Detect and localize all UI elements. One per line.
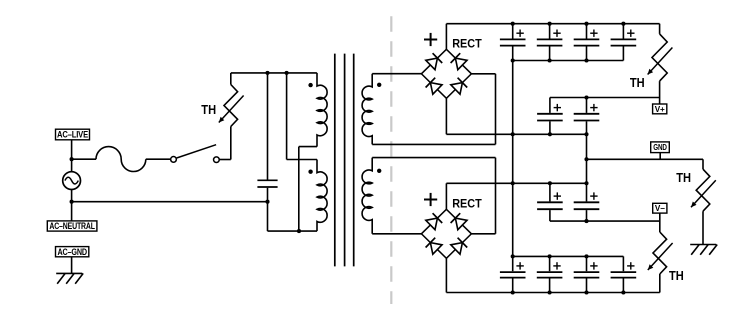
node live rail X-cap tap xyxy=(265,71,269,75)
capacitor C8 output V- xyxy=(537,183,563,221)
svg-text:AC–GND: AC–GND xyxy=(57,247,87,257)
center gnd bus wire xyxy=(586,134,588,183)
wire fuse to switch xyxy=(146,158,171,160)
svg-text:AC–NEUTRAL: AC–NEUTRAL xyxy=(49,221,95,231)
svg-text:TH: TH xyxy=(669,268,684,283)
transformer secondary S2 winding xyxy=(362,158,372,234)
junction dots gnd mid rail xyxy=(511,132,589,136)
V+ raw rail xyxy=(446,23,659,25)
label box AC-NEUTRAL xyxy=(47,221,97,231)
capacitor C12 reservoir V- xyxy=(574,256,600,292)
wire RECT2 plus output up xyxy=(445,183,447,209)
RECT2 diode D2 upper-right xyxy=(451,213,467,230)
transformer T1 core xyxy=(335,54,354,267)
node neutral junction at source xyxy=(70,200,74,204)
bottom bank upper rail xyxy=(513,255,624,257)
primary P1 to P2 interconnect wire xyxy=(299,147,317,232)
thermistor TH2 V+ current limit xyxy=(648,24,673,98)
transformer primary P2 phase dot xyxy=(308,170,312,174)
transformer secondary S1 phase dot xyxy=(377,83,381,87)
svg-text:RECT: RECT xyxy=(452,37,482,51)
secondary S1 bottom return wire xyxy=(372,74,495,145)
wire RECT2 minus output down xyxy=(445,258,447,292)
RECT2 diode D1 upper-left xyxy=(426,213,442,230)
capacitor C10 reservoir V- xyxy=(500,256,526,292)
bridge rectifier RECT1 body xyxy=(421,49,471,98)
svg-text:RECT: RECT xyxy=(452,197,482,211)
svg-text:V−: V− xyxy=(655,204,665,213)
junction dot GND rail xyxy=(584,157,588,161)
wire AC-GND to earth xyxy=(71,257,73,274)
capacitor C2 reservoir V+ xyxy=(500,24,526,61)
top bank lower rail xyxy=(513,60,624,62)
wire to AC-NEUTRAL label xyxy=(71,202,73,221)
secondary S1 top lead wire xyxy=(372,73,421,75)
label box V- xyxy=(653,203,667,213)
node live input junction xyxy=(70,157,74,161)
primary P2 bottom edge wire xyxy=(268,230,318,232)
svg-text:TH: TH xyxy=(201,102,216,117)
V- smoothed rail xyxy=(550,220,660,222)
transformer primary P1 phase dot xyxy=(308,83,312,87)
junction dots V+ raw rail xyxy=(511,22,626,26)
thermistor TH1 inrush mains xyxy=(219,73,244,160)
capacitor C11 reservoir V- xyxy=(537,256,563,292)
wire RECT1 minus output down xyxy=(445,98,447,134)
RECT2 plus polarity mark xyxy=(424,193,437,206)
wire to fuse xyxy=(72,158,96,160)
capacitor C7 output V+ xyxy=(574,98,600,135)
junction dot V- smoothed rail xyxy=(584,219,588,223)
RECT1 diode D3 lower-left xyxy=(426,78,442,95)
RECT2 plus rail xyxy=(446,182,586,184)
junction dots RECT2 plus rail xyxy=(511,181,589,185)
thermistor TH3 gnd xyxy=(691,159,716,244)
node primary interconnect junction xyxy=(297,229,301,233)
wire live rail to primary2 top xyxy=(287,73,317,160)
V+ smoothed rail xyxy=(550,97,660,99)
capacitor C5 reservoir V+ xyxy=(611,24,637,61)
node X-cap neutral primary return junction xyxy=(265,200,269,204)
bridge rectifier RECT2 body xyxy=(421,209,471,258)
transformer primary P1 winding xyxy=(317,73,327,147)
RECT2 diode D3 lower-left xyxy=(426,238,442,255)
transformer primary P2 winding xyxy=(317,160,327,232)
RECT1 diode D4 lower-right xyxy=(451,78,467,95)
capacitor C3 reservoir V+ xyxy=(537,24,563,61)
svg-text:TH: TH xyxy=(676,170,691,185)
capacitor C4 reservoir V+ xyxy=(574,24,600,61)
label box V+ xyxy=(653,104,667,114)
label box GND xyxy=(651,142,670,153)
svg-text:V+: V+ xyxy=(655,105,665,114)
transformer secondary S1 winding xyxy=(362,74,372,145)
transformer secondary S2 phase dot xyxy=(377,169,381,173)
svg-text:TH: TH xyxy=(630,75,645,90)
isolation boundary dashed line xyxy=(390,16,392,304)
AC source V1 xyxy=(63,159,81,202)
fuse F1 xyxy=(96,147,146,172)
wire switch to thermistor TH1 xyxy=(219,159,231,161)
svg-text:GND: GND xyxy=(653,143,667,152)
RECT2 diode D4 lower-right xyxy=(451,238,467,255)
switch S1 xyxy=(171,145,220,163)
junction dots V- raw rail xyxy=(511,290,626,294)
V- raw rail xyxy=(446,292,659,294)
neutral rail wire xyxy=(72,201,268,203)
wire AC-LIVE to live node xyxy=(71,140,73,159)
bus wire top bank to gnd rail xyxy=(512,61,514,257)
label box AC-LIVE xyxy=(56,129,90,140)
svg-text:AC–LIVE: AC–LIVE xyxy=(57,130,88,140)
junction dots bottom bank upper rail xyxy=(511,254,589,258)
GND output rail xyxy=(587,158,704,160)
secondary S2 top return wire xyxy=(372,158,495,234)
wire GND label to gnd rail xyxy=(659,153,661,160)
thermistor TH4 V- current limit xyxy=(648,232,673,293)
node live rail primary2 tap xyxy=(285,71,289,75)
RECT1 diode D2 upper-right xyxy=(451,53,467,69)
live rail after thermistor xyxy=(231,72,317,74)
chassis ground mains earth xyxy=(56,273,83,283)
junction dots top bank lower rail xyxy=(511,58,589,62)
X capacitor C1 xyxy=(257,180,277,201)
RECT1 diode D1 upper-left xyxy=(426,53,442,69)
label box AC-GND xyxy=(56,247,89,257)
capacitor C6 output V+ xyxy=(537,98,563,135)
gnd rail mid-left xyxy=(446,133,586,135)
RECT1 plus polarity mark xyxy=(424,33,437,46)
chassis ground output earth xyxy=(690,245,717,255)
capacitor C13 reservoir V- xyxy=(611,256,637,292)
X capacitor C1 top lead xyxy=(267,73,269,180)
capacitor C9 output V- xyxy=(574,183,600,221)
wire neutral junction to primary2 bottom xyxy=(267,202,269,231)
wire V- label through rail to TH4 xyxy=(659,213,661,232)
junction dot V+ smoothed rail xyxy=(584,95,588,99)
secondary S2 bottom lead wire xyxy=(372,233,421,235)
wire TH2 to V+ label xyxy=(659,98,661,105)
wire RECT1 plus output up xyxy=(445,24,447,50)
